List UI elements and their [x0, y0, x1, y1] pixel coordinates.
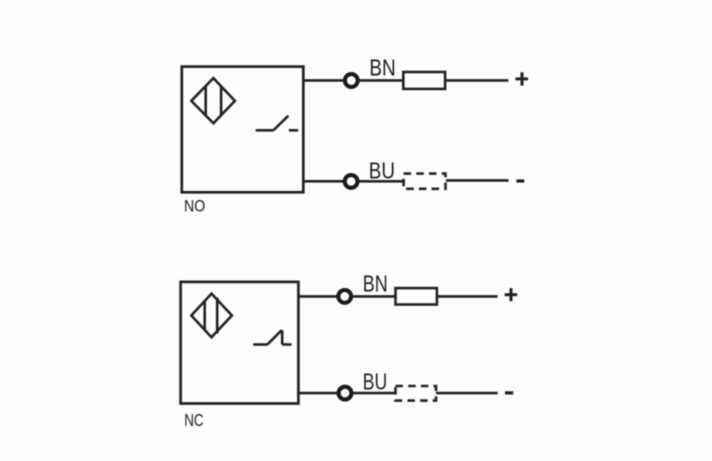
svg-text:BU: BU [369, 157, 395, 183]
sensor body U1 (NO) [182, 67, 303, 193]
proximity sensor symbol (diamond) U2 [191, 294, 232, 338]
wire: R1 to + terminal [445, 79, 508, 82]
wire: BN node to load R2 [352, 295, 396, 298]
svg-text:BN: BN [363, 270, 388, 296]
dashed load L2 (BU, optional) [396, 386, 437, 401]
dashed load L1 (BU, optional) [404, 174, 446, 189]
wire: U1 to BN node [304, 79, 345, 82]
wire: U2 to BU node [298, 392, 338, 395]
node: BN connector (NO) [345, 74, 358, 87]
wire: U1 to BU node [304, 180, 345, 183]
wire: L1 to - terminal [446, 179, 509, 182]
svg-text:NO: NO [184, 198, 205, 216]
svg-text:BU: BU [363, 369, 387, 395]
node: BU connector (NC) [339, 387, 352, 400]
+ terminal (NO supply plus) [516, 72, 529, 85]
- terminal (NO supply minus) [516, 179, 524, 182]
node: BN connector (NC) [338, 290, 351, 303]
svg-text:BN: BN [369, 54, 395, 80]
load resistor R1 [403, 72, 445, 89]
- terminal (NC supply minus) [505, 391, 513, 394]
node: BU connector (NO) [345, 175, 358, 188]
+ terminal (NC supply plus) [505, 288, 518, 301]
wire: BN node to load R1 [358, 79, 403, 82]
NC switch contact S2 [253, 330, 291, 344]
sensor body U2 (NC) [181, 282, 299, 404]
proximity sensor symbol (diamond) U1 [191, 78, 235, 123]
wire: U2 to BN node [298, 295, 338, 298]
wire: BU node to dashed load L2 [352, 392, 396, 395]
wire: R2 to + terminal [437, 295, 498, 298]
wire: L2 to - terminal [436, 392, 498, 395]
load resistor R2 [396, 288, 437, 304]
wire: BU node to dashed load L1 [358, 180, 404, 183]
svg-text:NC: NC [184, 410, 203, 430]
NO switch contact S1 [256, 116, 299, 131]
